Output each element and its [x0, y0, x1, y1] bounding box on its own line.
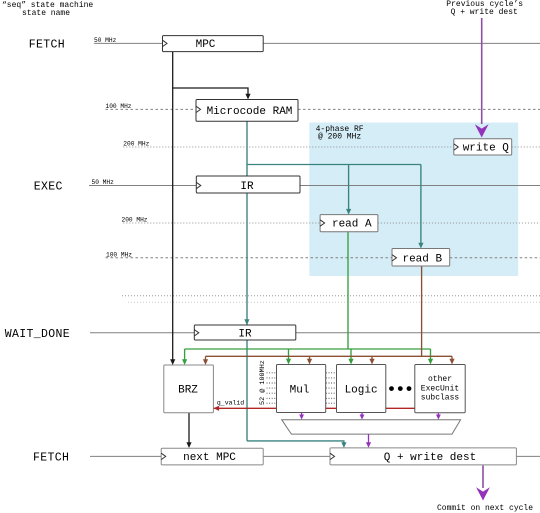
arrowhead teal into read A: [346, 209, 351, 215]
wire teal horizontal to read ports: [247, 164, 421, 166]
wire green drop to other ExecUnit: [430, 349, 432, 361]
arrowhead brown into BRZ: [203, 359, 208, 365]
wire brown drop to Logic: [371, 356, 373, 361]
clock line 100 MHz read B row: [106, 257, 540, 259]
svg-text:200 MHz: 200 MHz: [123, 141, 149, 148]
arrowhead red q_valid into BRZ: [213, 406, 219, 411]
wire BRZ to next MPC: [188, 413, 190, 444]
box write Q: [454, 139, 512, 155]
mux trapezoid: [282, 420, 461, 434]
box read A: [320, 215, 378, 232]
box MPC: [163, 36, 264, 52]
wire brown operand bus horizontal: [206, 355, 453, 357]
arrowhead teal into Q + write dest: [341, 442, 346, 448]
box BRZ: [164, 365, 214, 413]
svg-text:Q + write dest: Q + write dest: [451, 8, 518, 17]
svg-text:Mul: Mul: [290, 384, 310, 396]
wire purple Logic to mux: [361, 413, 363, 416]
clock line light dotted spacer row: [128, 301, 540, 303]
4-phase RF shaded region: [309, 123, 518, 277]
clock line 200 MHz read A row: [123, 222, 540, 224]
arrowhead purple mux to Q + write dest: [366, 442, 371, 448]
arrowhead purple stealth commit: [476, 487, 490, 500]
svg-text:other: other: [428, 375, 452, 384]
box next MPC: [161, 448, 263, 465]
arrowhead black into Microcode RAM: [245, 94, 250, 100]
bus hatch dots Mul to Logic: [326, 373, 336, 403]
svg-text:read A: read A: [332, 219, 372, 231]
clock line 50 MHz FETCH row: [94, 42, 540, 44]
arrowhead black into BRZ: [170, 359, 175, 365]
clock line WAIT_DONE row: [90, 332, 540, 334]
wire purple previous cycle into write Q: [481, 18, 483, 124]
svg-text:@ 200 MHz: @ 200 MHz: [318, 133, 361, 142]
svg-text:state name: state name: [22, 9, 70, 18]
svg-text:100 MHz: 100 MHz: [106, 103, 132, 110]
arrowhead purple Logic to mux: [360, 415, 365, 420]
wire green drop to BRZ: [184, 349, 186, 362]
clock line 200 MHz write Q row: [123, 146, 540, 148]
svg-text:FETCH: FETCH: [33, 452, 69, 465]
box Q + write dest: [330, 448, 516, 465]
arrowhead green into Mul: [286, 359, 291, 365]
svg-text:Logic: Logic: [345, 384, 378, 396]
svg-text:Microcode RAM: Microcode RAM: [207, 106, 293, 118]
arrowhead purple other to mux: [436, 415, 441, 420]
wire green drop to Mul: [288, 349, 290, 361]
bus hatch dots into Mul left: [267, 373, 277, 403]
arrowhead brown into other ExecUnit: [449, 359, 454, 365]
box IR wait_done: [194, 325, 295, 340]
svg-text:EXEC: EXEC: [34, 181, 63, 194]
svg-text:q_valid: q_valid: [217, 400, 244, 407]
wire brown drop to BRZ: [205, 356, 207, 362]
svg-text:subclass: subclass: [421, 394, 460, 403]
svg-text:52 @ 100MHz: 52 @ 100MHz: [259, 360, 267, 405]
svg-text:IR: IR: [240, 181, 254, 193]
svg-text:ExecUnit: ExecUnit: [421, 384, 459, 393]
wire teal bottom run to Q + write dest: [247, 441, 344, 445]
clock line dotted spacer row: [122, 295, 540, 297]
arrowhead teal into IR wait_done: [244, 319, 249, 325]
clock line 100 MHz microcode row: [106, 108, 540, 110]
svg-text:100 MHz: 100 MHz: [106, 252, 132, 259]
arrowhead green into BRZ: [182, 359, 187, 365]
svg-text:BRZ: BRZ: [178, 384, 198, 396]
arrowhead green into Logic: [348, 359, 353, 365]
wire read A output green vertical: [347, 232, 349, 349]
svg-text:Q + write dest: Q + write dest: [384, 452, 476, 464]
wire purple commit on next cycle: [482, 466, 484, 489]
wire teal drop to read A: [348, 165, 350, 212]
svg-text:IR: IR: [238, 328, 252, 340]
box read B: [392, 249, 450, 267]
svg-text:50 MHz: 50 MHz: [94, 37, 117, 44]
clock line 50 MHz EXEC row: [89, 185, 540, 187]
svg-text:FETCH: FETCH: [29, 39, 65, 52]
arrowhead brown into Mul: [307, 359, 312, 365]
wire MPC to BRZ (black vertical): [172, 52, 174, 362]
wire teal drop to read B: [420, 165, 422, 246]
box other ExecUnit subclass: [415, 365, 465, 413]
box Microcode RAM: [196, 100, 298, 122]
wire Microcode RAM output main teal vertical: [246, 121, 248, 441]
wire q_valid red line: [213, 407, 414, 409]
arrowhead brown into Logic: [369, 359, 374, 365]
ellipsis dots between Logic and other: [389, 386, 411, 391]
wire MPC branch to Microcode RAM: [173, 88, 248, 97]
wire purple Mul to mux: [301, 413, 303, 416]
svg-text:WAIT_DONE: WAIT_DONE: [5, 328, 70, 341]
box Logic: [337, 365, 386, 413]
svg-text:50 MHz: 50 MHz: [92, 179, 115, 186]
wire purple other to mux: [437, 413, 439, 416]
wire brown drop to Mul: [309, 356, 311, 361]
clock line FETCH bottom row: [90, 455, 540, 457]
wire read B output brown vertical: [421, 266, 423, 356]
svg-text:write Q: write Q: [463, 143, 510, 155]
wire green drop to Logic: [350, 349, 352, 361]
arrowhead green into other ExecUnit: [428, 359, 433, 365]
arrowhead purple stealth into write Q: [475, 124, 489, 137]
wire brown drop to other ExecUnit: [451, 356, 453, 361]
svg-text:MPC: MPC: [196, 39, 216, 51]
wire green operand bus horizontal: [185, 348, 431, 350]
box Mul: [277, 365, 326, 413]
svg-text:Commit on next cycle: Commit on next cycle: [437, 504, 533, 513]
arrowhead black into next MPC: [186, 442, 191, 448]
wire purple mux to Q + write dest: [368, 434, 370, 443]
box IR exec: [196, 176, 300, 193]
arrowhead purple Mul to mux: [299, 415, 304, 420]
arrowhead teal into read B: [418, 243, 423, 249]
svg-text:200 MHz: 200 MHz: [122, 217, 148, 224]
svg-text:read B: read B: [402, 254, 442, 266]
svg-text:next MPC: next MPC: [183, 452, 236, 464]
